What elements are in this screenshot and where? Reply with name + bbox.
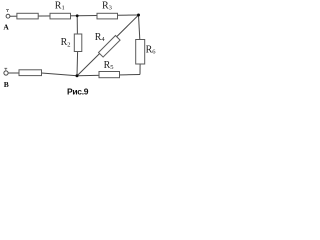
svg-text:Рис.9: Рис.9 xyxy=(67,87,89,97)
svg-text:R2: R2 xyxy=(61,37,71,48)
svg-text:R3: R3 xyxy=(102,0,112,11)
svg-text:R4: R4 xyxy=(95,32,106,43)
svg-text:R5: R5 xyxy=(104,60,114,71)
svg-text:R1: R1 xyxy=(55,0,65,11)
svg-text:R6: R6 xyxy=(146,44,157,55)
svg-text:A: A xyxy=(3,23,9,32)
svg-text:В: В xyxy=(4,80,9,89)
